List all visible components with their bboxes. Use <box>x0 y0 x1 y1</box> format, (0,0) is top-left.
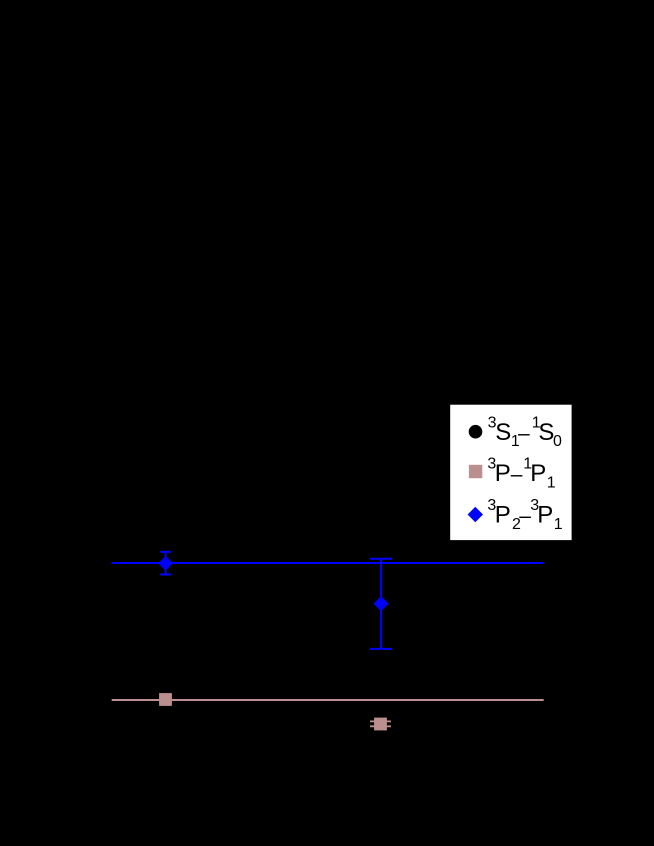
pink point 2 square marker <box>374 718 387 731</box>
pink theory line (3P-1P1 band) <box>112 699 544 701</box>
legend box <box>450 404 572 540</box>
blue diamond marker 2 <box>374 596 389 611</box>
blue diamond marker 1 <box>158 556 173 571</box>
legend entry 1 marker: black circle <box>469 425 483 439</box>
blue theory line (3P2-3P1 band) <box>112 562 544 564</box>
blue point 2 error bar <box>370 559 392 649</box>
legend entry 2 marker: rosybrown square <box>469 465 482 478</box>
pink point 1 square marker <box>159 693 172 706</box>
legend entry 3 marker: blue diamond <box>468 507 483 522</box>
blue point 1 error bar <box>160 552 171 575</box>
pink point 2 error bar <box>370 721 391 726</box>
